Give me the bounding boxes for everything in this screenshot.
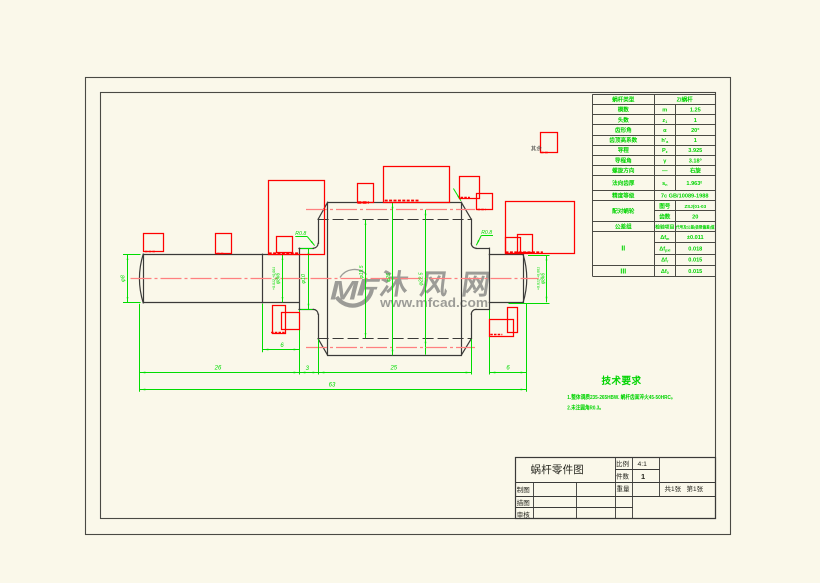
svg-text:φ25: φ25	[386, 273, 392, 282]
svg-text:φ19.5: φ19.5	[359, 265, 365, 278]
svg-text:法向齿厚: 法向齿厚	[612, 179, 635, 187]
svg-text:螺旋方向: 螺旋方向	[612, 167, 635, 175]
svg-text:0.018: 0.018	[688, 246, 702, 252]
svg-text:其余: 其余	[531, 144, 543, 152]
svg-text:件数: 件数	[616, 472, 630, 481]
svg-text:2.未注圆角R0.3。: 2.未注圆角R0.3。	[567, 403, 604, 411]
svg-text:1.整体调质235-265HBW. 蜗杆齿面淬火45-50H: 1.整体调质235-265HBW. 蜗杆齿面淬火45-50HRC。	[567, 393, 675, 401]
svg-text:审核: 审核	[517, 510, 531, 519]
svg-text:R0.8: R0.8	[295, 231, 306, 237]
svg-text:齿形角: 齿形角	[615, 126, 632, 134]
svg-text:配对蜗轮: 配对蜗轮	[612, 207, 635, 215]
svg-text:重量: 重量	[617, 485, 631, 493]
svg-text:1: 1	[694, 118, 697, 124]
svg-text:φ8k6: φ8k6	[541, 273, 547, 285]
svg-text:制图: 制图	[517, 485, 530, 494]
svg-text:R0.8: R0.8	[481, 230, 492, 236]
svg-text:比例: 比例	[616, 459, 629, 468]
svg-text:导程: 导程	[618, 146, 630, 154]
svg-text:+0.012 +0.001: +0.012 +0.001	[537, 267, 541, 290]
svg-text:齿数: 齿数	[659, 212, 671, 220]
svg-text:模数: 模数	[618, 106, 630, 114]
svg-text:φ22.5: φ22.5	[418, 272, 424, 285]
svg-text:齿顶高系数: 齿顶高系数	[609, 136, 637, 144]
svg-text:ZSJ(01-03: ZSJ(01-03	[684, 204, 706, 209]
svg-text:φ10: φ10	[301, 273, 307, 284]
svg-text:描图: 描图	[517, 498, 530, 507]
svg-text:ZI蜗杆: ZI蜗杆	[677, 96, 694, 104]
svg-text:导程角: 导程角	[615, 156, 632, 164]
svg-text:+0.012 +0.001: +0.012 +0.001	[272, 267, 276, 290]
svg-text:蜗杆类型: 蜗杆类型	[612, 96, 635, 104]
svg-text:0.015: 0.015	[688, 269, 702, 275]
svg-text:技术要求: 技术要求	[602, 375, 642, 387]
svg-text:3.18°: 3.18°	[689, 158, 702, 164]
svg-text:代号及公差(极限偏差)值: 代号及公差(极限偏差)值	[675, 224, 715, 229]
svg-text:20°: 20°	[691, 128, 699, 134]
svg-text:头数: 头数	[618, 116, 630, 124]
svg-text:26: 26	[214, 366, 222, 372]
svg-text:1: 1	[694, 138, 697, 144]
svg-text:www.mfcad.com: www.mfcad.com	[379, 295, 488, 310]
svg-text:精度等级: 精度等级	[612, 192, 635, 200]
svg-text:25: 25	[389, 366, 397, 372]
svg-text:1.25: 1.25	[690, 108, 701, 114]
svg-text:III: III	[620, 268, 626, 275]
svg-text:α: α	[663, 128, 667, 134]
svg-text:共1张 第1张: 共1张 第1张	[665, 484, 704, 493]
svg-text:检验项目: 检验项目	[655, 223, 674, 230]
svg-text:—: —	[662, 169, 668, 175]
svg-text:63: 63	[329, 383, 336, 389]
svg-text:II: II	[621, 246, 625, 253]
svg-text:4:1: 4:1	[638, 461, 648, 468]
svg-text:φ8k6: φ8k6	[275, 273, 281, 285]
svg-text:±0.011: ±0.011	[687, 235, 704, 241]
svg-text:7c GB/10089-1988: 7c GB/10089-1988	[661, 194, 709, 200]
svg-text:M: M	[330, 276, 359, 306]
svg-text:1.9630: 1.9630	[686, 180, 702, 187]
svg-text:蜗杆零件图: 蜗杆零件图	[531, 463, 585, 476]
svg-text:0.015: 0.015	[688, 258, 702, 264]
svg-text:1: 1	[641, 472, 645, 481]
svg-text:图号: 图号	[659, 202, 671, 210]
svg-text:20: 20	[692, 214, 698, 220]
svg-text:φ8: φ8	[121, 274, 127, 282]
svg-text:公差组: 公差组	[615, 222, 632, 230]
svg-text:3.925: 3.925	[688, 148, 702, 154]
svg-text:m: m	[662, 108, 667, 114]
svg-text:右旋: 右旋	[690, 167, 702, 175]
